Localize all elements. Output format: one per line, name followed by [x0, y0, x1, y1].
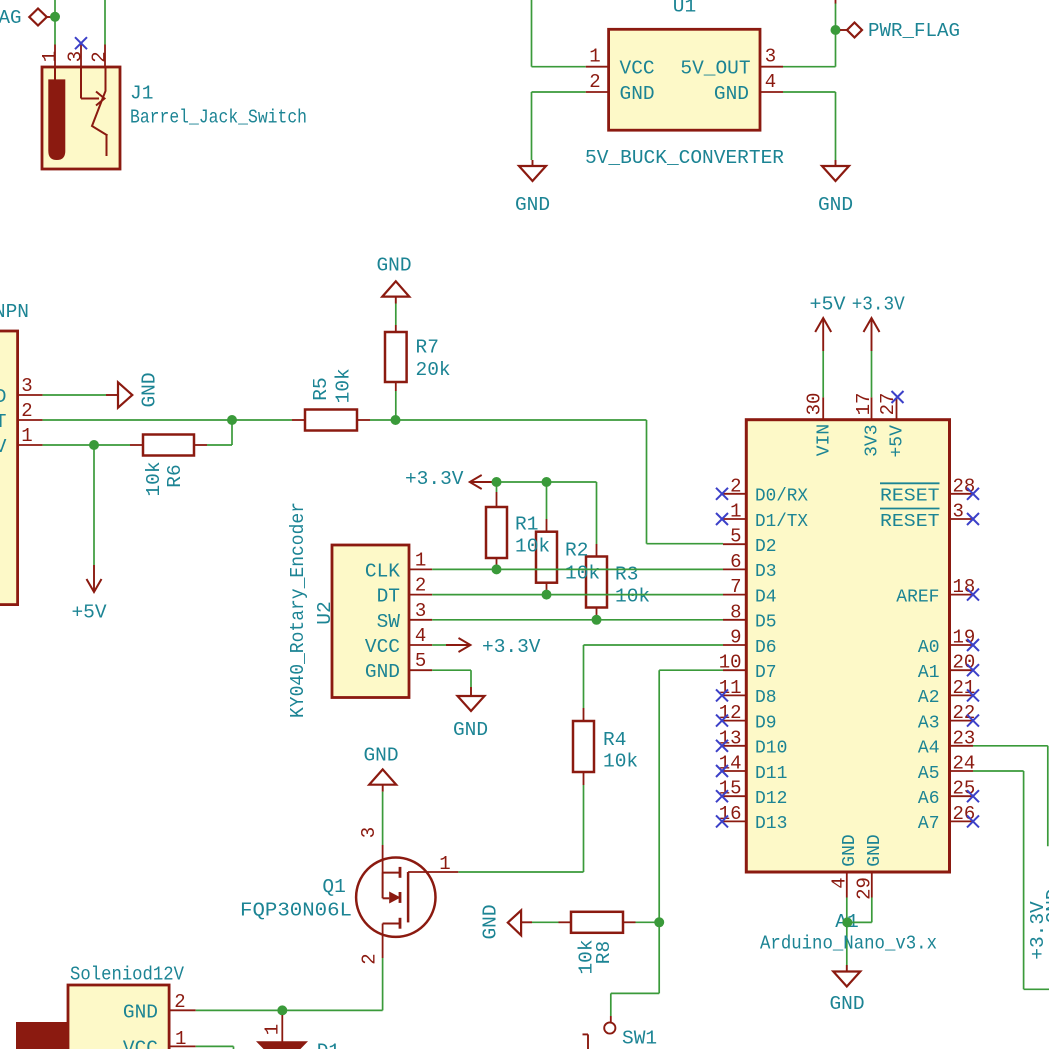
ground GND (U2) — [453, 687, 488, 741]
junction 5V net / PWR_FLAG — [831, 25, 841, 35]
Arduino bottom pin names — [840, 834, 885, 866]
U1 pin numbers — [589, 46, 776, 94]
wire Q1 drain down — [382, 958, 384, 1010]
wire R7 bottom — [395, 391, 397, 420]
svg-text:24: 24 — [953, 753, 976, 775]
svg-text:2: 2 — [730, 475, 741, 497]
wire U1 5V_OUT — [783, 66, 836, 68]
wire U2 VCC — [432, 644, 446, 646]
wire U2 GND — [432, 669, 471, 671]
svg-text:CLK: CLK — [365, 560, 400, 582]
module A1 Arduino_Nano_v3.x — [746, 420, 949, 872]
svg-text:1: 1 — [415, 549, 426, 571]
svg-text:SW: SW — [377, 611, 401, 633]
svg-text:5: 5 — [415, 650, 426, 672]
svg-text:4: 4 — [765, 71, 776, 93]
no-connect marks left pins — [716, 488, 728, 828]
solenoid pin numbers — [174, 991, 186, 1049]
svg-text:Arduino_Nano_v3.x: Arduino_Nano_v3.x — [760, 933, 937, 955]
svg-text:GND: GND — [363, 745, 398, 767]
svg-text:U1: U1 — [673, 0, 696, 18]
Arduino bottom pin numbers — [828, 877, 875, 900]
svg-text:GND: GND — [620, 83, 655, 105]
junction R3 bottom / SW — [592, 615, 602, 625]
wire SW to D5 — [432, 619, 723, 621]
svg-text:3: 3 — [64, 51, 86, 62]
svg-text:Barrel_Jack_Switch: Barrel_Jack_Switch — [130, 107, 307, 129]
wire DT to D4 — [432, 594, 723, 596]
svg-text:3V3: 3V3 — [863, 424, 883, 456]
svg-text:D11: D11 — [755, 764, 787, 784]
svg-text:U2: U2 — [314, 601, 336, 624]
svg-text:A1: A1 — [918, 663, 940, 683]
wire 12V to J1 pin 1 — [54, 0, 56, 45]
svg-text:2: 2 — [21, 400, 32, 422]
svg-text:R7: R7 — [416, 337, 439, 359]
svg-text:GND: GND — [515, 194, 550, 216]
svg-text:A6: A6 — [918, 789, 940, 809]
svg-text:A4: A4 — [918, 739, 940, 759]
wire U1 pin 2 to GND — [532, 91, 586, 93]
Arduino top pin names — [814, 424, 907, 458]
resistor R1 — [486, 482, 507, 569]
junction 12V / +5V — [89, 440, 99, 450]
svg-text:A7: A7 — [918, 814, 940, 834]
ground GND (Arduino) — [829, 965, 864, 1015]
svg-text:R3: R3 — [615, 564, 638, 586]
wire sensor pin 3 to GND — [43, 394, 106, 396]
svg-text:7: 7 — [730, 576, 741, 598]
svg-text:PWR_FLAG: PWR_FLAG — [0, 7, 22, 29]
svg-text:+5V: +5V — [887, 425, 907, 458]
wire D2 net vertical — [646, 420, 648, 544]
svg-text:SW1: SW1 — [622, 1028, 657, 1049]
Arduino right pin stubs — [950, 494, 974, 822]
svg-text:R4: R4 — [603, 729, 626, 751]
svg-text:10k: 10k — [615, 586, 650, 608]
svg-text:GND: GND — [818, 194, 853, 216]
solenoid LS1 Soleniod12V — [16, 985, 196, 1049]
svg-text:R2: R2 — [565, 540, 588, 562]
svg-text:D0/RX: D0/RX — [755, 487, 808, 507]
svg-text:1: 1 — [261, 1024, 283, 1035]
svg-text:GND: GND — [0, 386, 7, 408]
svg-text:1: 1 — [439, 853, 450, 875]
no-connect J1 pin 3 — [75, 37, 87, 49]
regulator U1 5V_BUCK_CONVERTER — [586, 29, 783, 130]
svg-text:D1: D1 — [317, 1041, 340, 1049]
Arduino left pin names — [755, 487, 808, 835]
sensor pin names — [0, 386, 7, 458]
connector J1 Barrel_Jack_Switch — [42, 45, 120, 170]
wire U1 output GND — [783, 91, 836, 93]
ground GND (sensor pin 3, arrow right) — [106, 372, 161, 407]
svg-text:29: 29 — [853, 877, 875, 900]
ground GND (U1 input) — [515, 160, 550, 216]
svg-text:5V_BUCK_CONVERTER: 5V_BUCK_CONVERTER — [585, 147, 784, 169]
svg-text:A0: A0 — [918, 638, 940, 658]
svg-text:R5: R5 — [310, 377, 332, 400]
power +5V (pointing down) — [71, 565, 106, 624]
svg-text:GND: GND — [865, 834, 885, 866]
svg-text:R8: R8 — [593, 941, 615, 964]
svg-text:D8: D8 — [755, 688, 777, 708]
ground GND (above Q1) — [363, 745, 398, 792]
sensor pin numbers — [21, 375, 32, 447]
svg-text:GND: GND — [123, 1001, 158, 1023]
U2 pin names — [365, 560, 400, 683]
svg-text:30: 30 — [803, 393, 825, 416]
wire to R3 top — [596, 482, 598, 544]
svg-text:OUT: OUT — [0, 411, 7, 433]
no-connect Arduino pin 27 — [892, 391, 904, 403]
Arduino top pin numbers — [803, 393, 899, 416]
svg-text:KY040_Rotary_Encoder: KY040_Rotary_Encoder — [287, 502, 309, 718]
svg-text:VCC: VCC — [365, 636, 400, 658]
wire Arduino D7 net — [659, 669, 723, 671]
svg-text:RESET: RESET — [880, 512, 940, 532]
wire solenoid GND to Q1 drain — [196, 1009, 383, 1011]
svg-text:VCC: VCC — [123, 1037, 158, 1049]
svg-text:GND: GND — [840, 834, 860, 866]
svg-text:4: 4 — [415, 625, 426, 647]
wire R4 to Q1 gate — [583, 785, 585, 872]
svg-text:27: 27 — [877, 393, 899, 416]
svg-text:D6: D6 — [755, 638, 777, 658]
resistor R5 — [292, 410, 370, 431]
svg-text:A2: A2 — [918, 688, 940, 708]
svg-text:+3.3V: +3.3V — [1027, 901, 1049, 960]
svg-text:3: 3 — [415, 600, 426, 622]
wire +3.3V to 3V3 — [871, 351, 873, 397]
svg-text:PWR_FLAG: PWR_FLAG — [868, 20, 960, 42]
svg-text:VIN: VIN — [814, 424, 834, 456]
wire R6 to OUT net — [207, 444, 232, 446]
wire Q1 source to GND — [382, 792, 384, 845]
svg-text:10: 10 — [719, 652, 742, 674]
wire sensor OUT net — [43, 419, 292, 421]
svg-text:10k: 10k — [565, 563, 600, 585]
no-connect marks right pins — [967, 488, 979, 828]
resistor R2 — [536, 519, 557, 595]
svg-text:J1: J1 — [130, 83, 153, 105]
svg-text:GND: GND — [376, 255, 411, 277]
svg-text:1: 1 — [39, 51, 61, 62]
svg-text:DT: DT — [377, 586, 400, 608]
junction R7 bottom — [391, 415, 401, 425]
wire Arduino D6 net — [584, 644, 724, 646]
Arduino right pin names — [880, 483, 940, 834]
svg-text:4: 4 — [828, 877, 850, 888]
svg-text:+5V: +5V — [810, 294, 846, 316]
svg-text:D10: D10 — [755, 739, 787, 759]
resistor R8 — [559, 912, 636, 933]
svg-text:1: 1 — [175, 1028, 186, 1049]
power +3.3V (arrow left) — [405, 468, 494, 490]
svg-text:10k: 10k — [143, 461, 165, 496]
wire sensor pin 1 12V net — [43, 444, 130, 446]
resistor R3 — [586, 544, 607, 620]
encoder U2 KY040_Rotary_Encoder — [332, 545, 432, 698]
svg-text:FQP30N06L: FQP30N06L — [240, 900, 352, 922]
svg-text:3: 3 — [358, 827, 380, 838]
svg-text:2: 2 — [589, 71, 600, 93]
svg-text:+3.3V: +3.3V — [405, 468, 464, 490]
wire to +5V symbol — [93, 445, 95, 565]
svg-text:23: 23 — [953, 727, 976, 749]
svg-text:AREF: AREF — [896, 587, 939, 607]
svg-text:2: 2 — [415, 575, 426, 597]
svg-text:+3.3V: +3.3V — [482, 636, 541, 658]
svg-text:A5: A5 — [918, 764, 940, 784]
power +3.3V (Arduino 3V3) — [852, 294, 905, 352]
ground GND (U1 output) — [818, 160, 853, 216]
svg-text:9: 9 — [730, 627, 741, 649]
svg-text:GND: GND — [829, 993, 864, 1015]
svg-text:10k: 10k — [515, 536, 550, 558]
svg-text:GND: GND — [480, 904, 502, 939]
svg-text:1: 1 — [730, 501, 741, 523]
svg-text:8: 8 — [730, 601, 741, 623]
svg-text:5: 5 — [730, 526, 741, 548]
Q1 pin numbers — [358, 827, 451, 965]
svg-text:Soleniod12V: Soleniod12V — [70, 964, 184, 986]
J1 pin numbers — [39, 51, 111, 63]
svg-text:D12: D12 — [755, 789, 787, 809]
svg-text:3: 3 — [21, 375, 32, 397]
svg-text:GND: GND — [453, 719, 488, 741]
svg-text:3: 3 — [765, 46, 776, 68]
svg-text:R1: R1 — [515, 514, 538, 536]
svg-text:D2: D2 — [755, 537, 777, 557]
Arduino left pin numbers — [719, 475, 742, 825]
junction R1 bottom / CLK — [492, 564, 502, 574]
svg-text:D5: D5 — [755, 613, 777, 633]
Arduino top pin stubs — [823, 397, 896, 419]
svg-text:+3.3V: +3.3V — [852, 294, 905, 316]
Arduino left pin stubs — [723, 494, 746, 822]
svg-text:3: 3 — [953, 501, 964, 523]
svg-text:D9: D9 — [755, 713, 777, 733]
sensor U3 ...NPN (clipped at left edge) — [0, 331, 43, 605]
junction R2 top — [542, 477, 552, 487]
svg-text:12V: 12V — [0, 436, 7, 458]
svg-text:6: 6 — [730, 551, 741, 573]
junction D7 / R8 / SW1 — [654, 917, 664, 927]
wire U1 pin 1 — [532, 66, 586, 68]
power flag PWR_FLAG (J1 input) — [0, 7, 55, 29]
junction at J1 pin 1 / PWR_FLAG — [50, 12, 60, 22]
svg-text:Q1: Q1 — [322, 876, 345, 898]
svg-text:1: 1 — [589, 46, 600, 68]
resistor R7 — [385, 325, 407, 391]
svg-text:10k: 10k — [603, 751, 638, 773]
junction D1 / solenoid — [277, 1005, 287, 1015]
svg-text:RESET: RESET — [880, 487, 940, 507]
ground GND (R8, arrow left) — [480, 904, 532, 939]
svg-text:5V_OUT: 5V_OUT — [680, 58, 750, 80]
svg-text:D4: D4 — [755, 587, 777, 607]
svg-text:A3: A3 — [918, 713, 940, 733]
solenoid pin names — [123, 1001, 158, 1049]
U2 pin numbers — [415, 549, 426, 672]
wire A4 to GND (right edge) — [973, 745, 1048, 747]
diode D1 — [256, 1015, 308, 1049]
power +3.3V (U2 VCC, arrow right) — [446, 636, 541, 658]
switch SW1 — [583, 1016, 616, 1049]
U1 pin names — [620, 58, 751, 105]
wire +5V to VIN — [822, 351, 824, 397]
wire solenoid VCC — [196, 1045, 234, 1047]
svg-text:2: 2 — [88, 51, 110, 62]
wire R8 left to GND — [532, 921, 559, 923]
svg-text:10k: 10k — [333, 368, 355, 403]
svg-text:+5V: +5V — [71, 602, 106, 624]
svg-text:D1/TX: D1/TX — [755, 512, 808, 532]
power +5V (Arduino VIN) — [810, 294, 846, 352]
junction R1 top — [492, 477, 502, 487]
wire to J1 pin 2 — [104, 0, 106, 45]
svg-text:2: 2 — [174, 991, 185, 1013]
svg-text:D13: D13 — [755, 814, 787, 834]
svg-text:GND: GND — [139, 372, 161, 407]
transistor Q1 FQP30N06L — [356, 845, 458, 958]
svg-text:VCC: VCC — [620, 58, 655, 80]
wire Arduino GND pins — [846, 898, 848, 966]
svg-text:NPN: NPN — [0, 301, 29, 323]
junction OUT / R6 — [227, 415, 237, 425]
wire A5 to +3.3V (right edge) — [973, 770, 1024, 772]
junction R2 bottom / DT — [542, 590, 552, 600]
power flag PWR_FLAG (5V output) — [840, 20, 960, 42]
ground GND (above R7) — [376, 255, 411, 304]
svg-text:GND: GND — [714, 83, 749, 105]
junction Arduino GND — [842, 917, 852, 927]
wire CLK to D3 — [432, 568, 723, 570]
wire +3.3V rail — [494, 481, 597, 483]
wire SW1 net — [658, 922, 660, 993]
wire R8 right — [636, 921, 660, 923]
Arduino bottom pin stubs — [847, 872, 872, 898]
svg-text:D3: D3 — [755, 562, 777, 582]
svg-text:GND: GND — [365, 661, 400, 683]
wire to Arduino D2 — [647, 543, 724, 545]
wire R7 top to GND — [395, 304, 397, 326]
svg-text:R6: R6 — [164, 464, 186, 487]
svg-text:2: 2 — [358, 953, 380, 964]
svg-text:20k: 20k — [416, 359, 451, 381]
resistor R6 — [130, 435, 207, 456]
wire R5 to D2 net — [370, 419, 647, 421]
svg-text:1: 1 — [21, 425, 32, 447]
wire U1 VCC input vertical — [531, 0, 533, 67]
svg-text:D7: D7 — [755, 663, 777, 683]
Arduino right pin numbers — [953, 475, 976, 825]
resistor R4 — [573, 708, 594, 785]
